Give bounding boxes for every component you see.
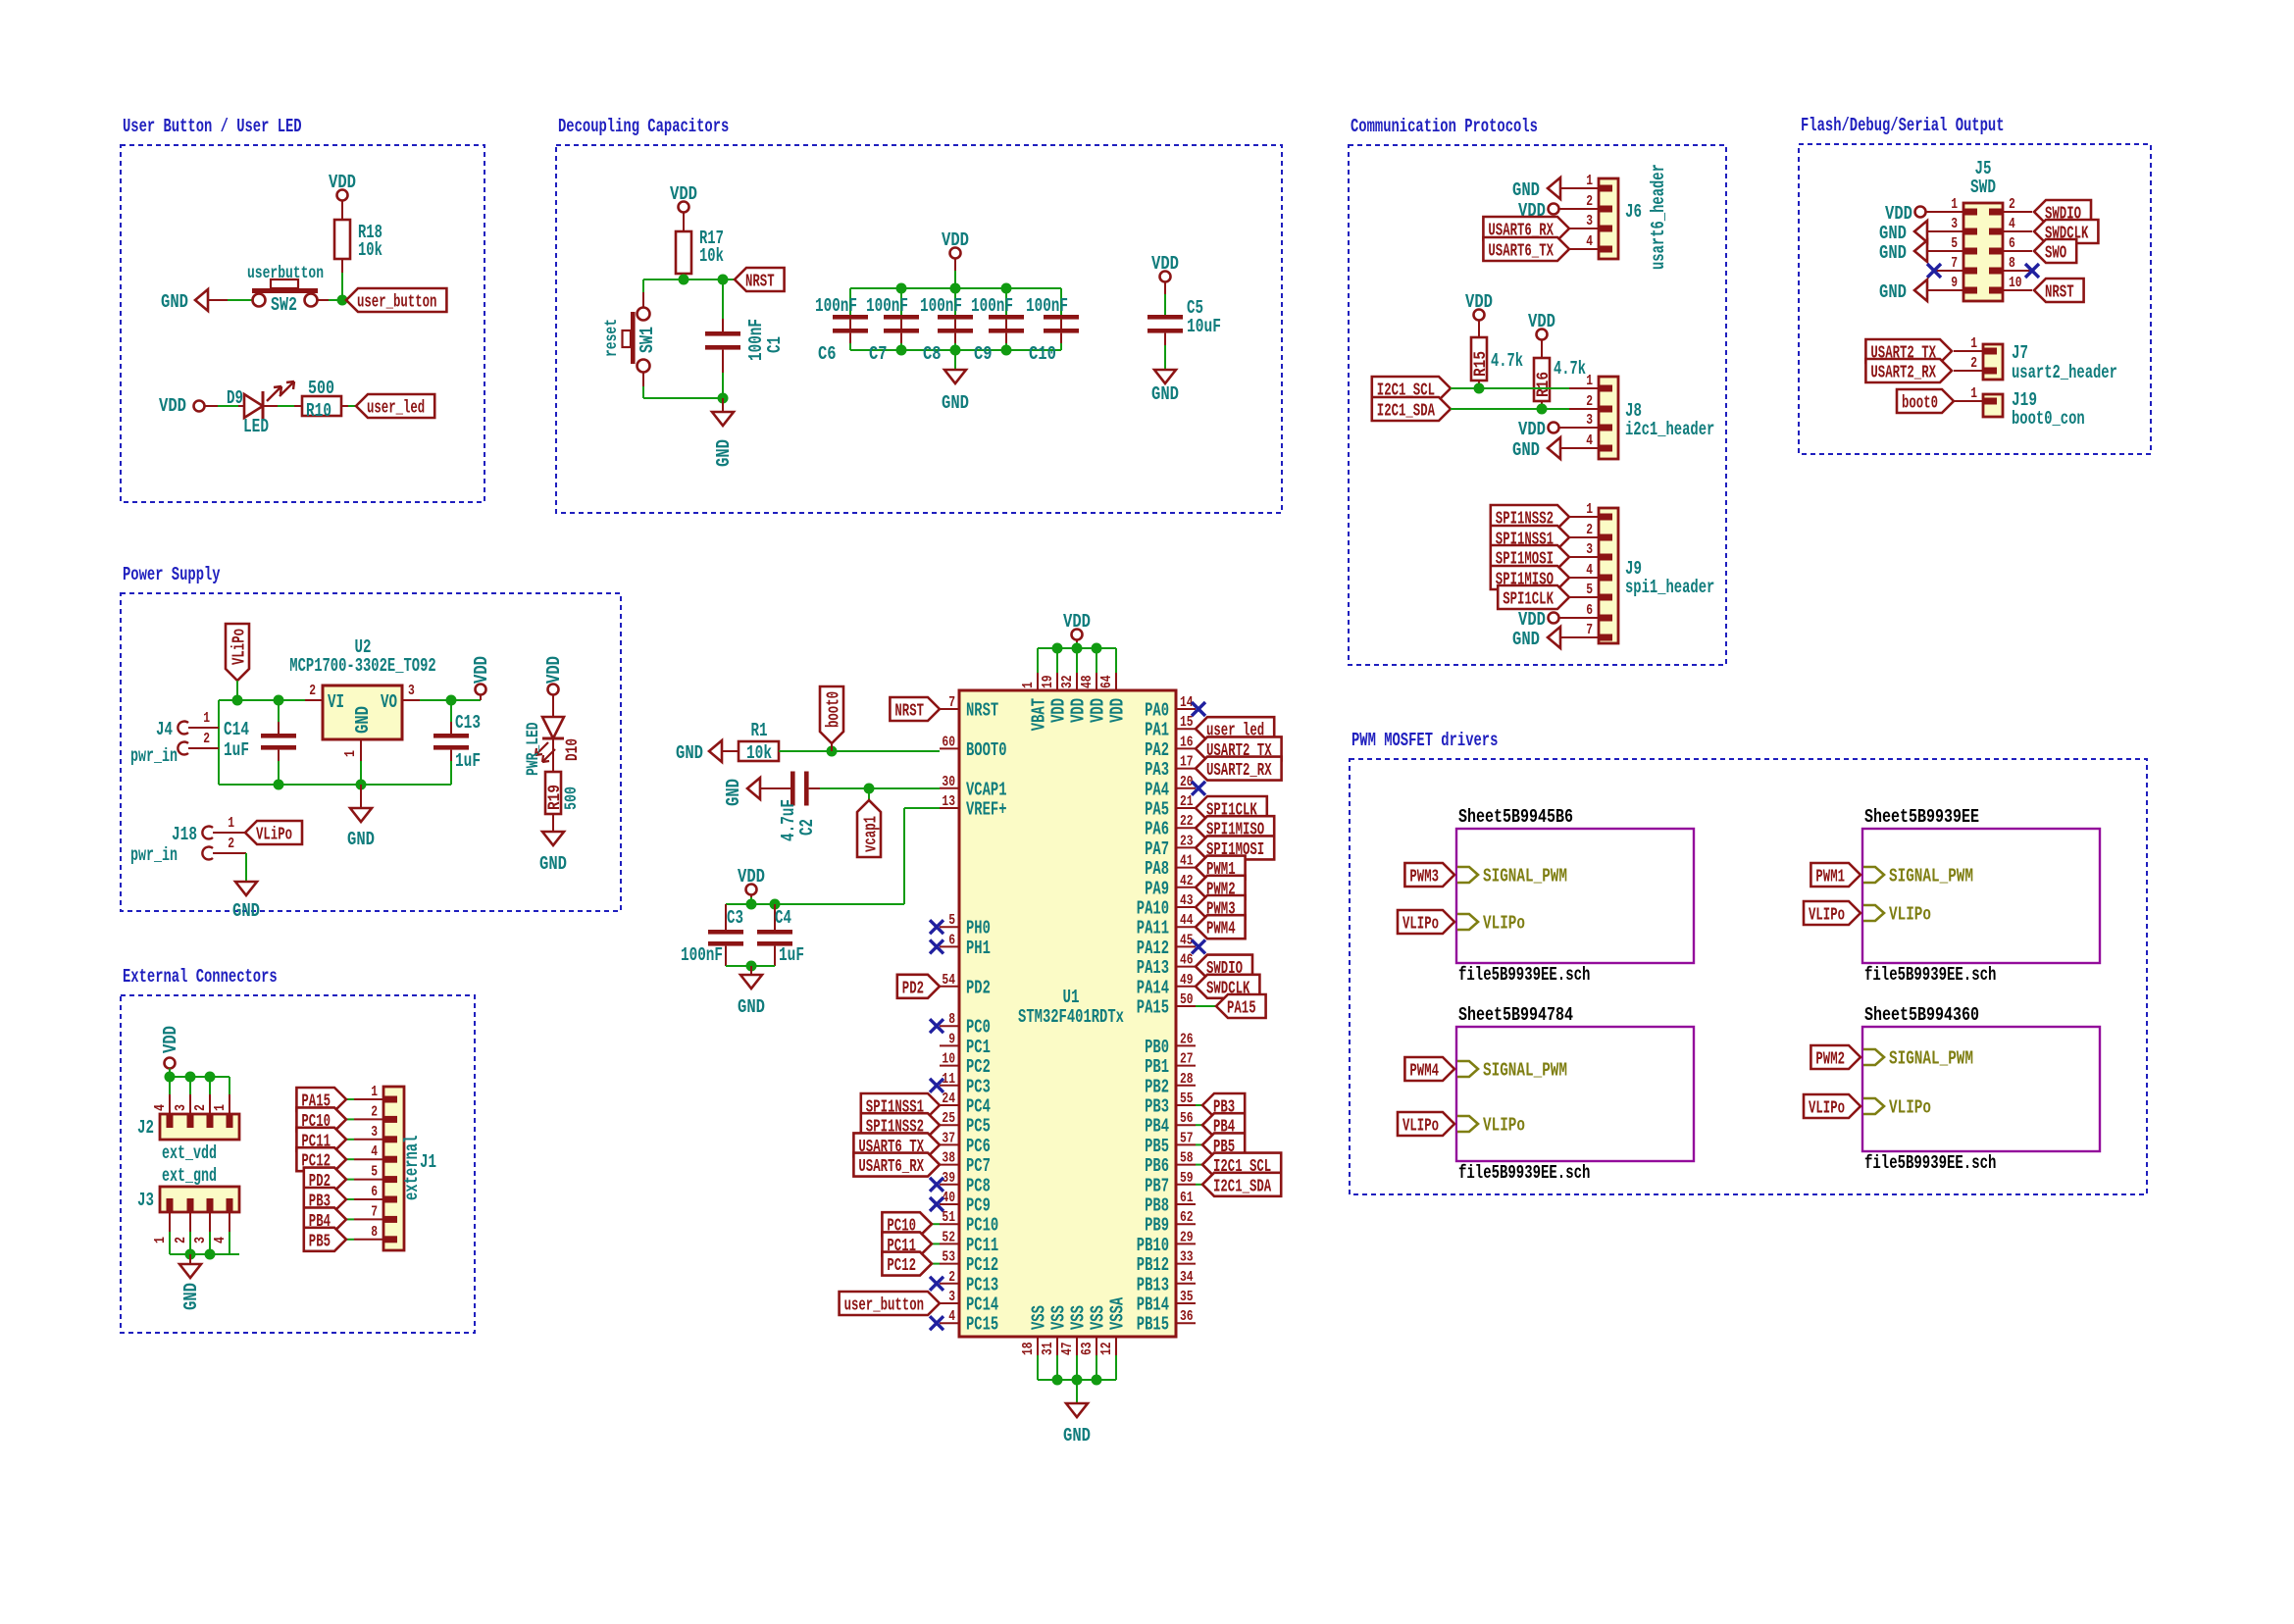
svg-text:user_button: user_button [844, 1296, 924, 1316]
hier label I2C1_SDA (MCU) [1196, 1173, 1281, 1197]
svg-text:VREF+: VREF+ [966, 799, 1007, 821]
hier label USART6_RX (MCU) [853, 1153, 940, 1178]
resistor R16 [1534, 358, 1586, 401]
svg-text:27: 27 [1180, 1051, 1194, 1068]
svg-text:PB9: PB9 [1145, 1215, 1169, 1237]
connector J7 pins [1954, 335, 1997, 372]
svg-text:PC12: PC12 [966, 1254, 998, 1276]
svg-text:VDD: VDD [160, 1026, 181, 1053]
hier label user_led [356, 394, 434, 419]
svg-text:3: 3 [408, 683, 415, 699]
svg-text:C2: C2 [796, 819, 818, 836]
hier label PC10 (MCU) [882, 1212, 940, 1237]
svg-text:PWM MOSFET drivers: PWM MOSFET drivers [1351, 730, 1498, 751]
svg-text:35: 35 [1180, 1289, 1194, 1305]
svg-text:VDD: VDD [738, 866, 765, 888]
svg-text:boot0: boot0 [1902, 394, 1938, 414]
svg-text:2: 2 [2009, 196, 2015, 213]
hier label I2C1_SCL (west) [1372, 377, 1451, 401]
svg-text:PB5: PB5 [1145, 1136, 1169, 1157]
label pwr_in (J4) [130, 745, 178, 767]
svg-text:userbutton: userbutton [247, 264, 324, 283]
svg-text:4: 4 [1586, 432, 1593, 449]
svg-text:GND: GND [1512, 629, 1540, 650]
junctions J2 bus [165, 1072, 216, 1083]
svg-text:PA10: PA10 [1137, 898, 1169, 920]
svg-text:VDD: VDD [159, 395, 186, 417]
svg-text:VSSA: VSSA [1107, 1296, 1129, 1330]
hier label boot0 (J19) [1897, 389, 1954, 414]
svg-text:user_button: user_button [357, 293, 436, 313]
svg-text:GND: GND [180, 1283, 202, 1310]
svg-text:1: 1 [342, 750, 359, 757]
ground GND (C1) [712, 412, 735, 467]
svg-text:1: 1 [203, 710, 210, 727]
svg-text:VDD: VDD [1151, 253, 1179, 275]
svg-text:26: 26 [1180, 1031, 1194, 1047]
svg-text:57: 57 [1180, 1130, 1194, 1146]
wire GND to SW2 [228, 299, 252, 301]
power flag VDD (J5 pin1) [1885, 203, 1934, 225]
svg-text:PH0: PH0 [966, 918, 991, 939]
svg-text:C8: C8 [923, 343, 942, 365]
connector J19 body [1983, 389, 2085, 430]
svg-text:10k: 10k [699, 245, 724, 267]
svg-text:52: 52 [942, 1229, 955, 1245]
power flag VDD (cap bank) [942, 229, 969, 288]
svg-text:25: 25 [942, 1110, 955, 1127]
svg-text:3: 3 [192, 1237, 209, 1243]
svg-text:36: 36 [1180, 1308, 1194, 1325]
svg-text:VLIPo: VLIPo [1889, 904, 1931, 926]
ground GND (J5 pin9) [1879, 279, 1934, 303]
hier label SWDIO [2034, 200, 2091, 225]
MCU U1 bottom power pins [1020, 1296, 1129, 1380]
hier label USART2_RX (MCU) [1196, 757, 1282, 782]
svg-text:100nF: 100nF [971, 295, 1013, 317]
svg-text:10: 10 [2009, 275, 2022, 291]
junction C3/C4 bottom [746, 961, 757, 972]
ground GND (R1) [676, 740, 739, 764]
power flag VDD (J8 pin3) [1518, 419, 1569, 440]
svg-text:file5B9939EE.sch: file5B9939EE.sch [1864, 964, 1996, 986]
svg-text:i2c1_header: i2c1_header [1625, 419, 1714, 440]
svg-text:4: 4 [2009, 216, 2015, 232]
svg-text:Flash/Debug/Serial Output: Flash/Debug/Serial Output [1801, 115, 2005, 136]
svg-text:10uF: 10uF [1187, 316, 1221, 337]
svg-text:PA11: PA11 [1137, 918, 1169, 939]
svg-text:GND: GND [1512, 439, 1540, 461]
wire VLiPo to bus [236, 681, 238, 700]
svg-text:56: 56 [1180, 1110, 1194, 1127]
capacitor C13 [433, 700, 481, 785]
svg-text:1: 1 [1970, 335, 1977, 352]
svg-text:59: 59 [1180, 1170, 1194, 1187]
svg-text:SIGNAL_PWM: SIGNAL_PWM [1889, 1048, 1973, 1070]
svg-text:VSS: VSS [1029, 1305, 1050, 1330]
hier label SWO [2034, 239, 2076, 264]
svg-text:PB4: PB4 [1145, 1116, 1169, 1138]
junction gnd bus U2 [356, 780, 367, 790]
svg-text:USART6_TX: USART6_TX [1488, 242, 1554, 262]
svg-text:62: 62 [1180, 1209, 1194, 1226]
U2 pin3 [402, 683, 420, 700]
power flag VDD (R15) [1465, 291, 1493, 337]
power flag VDD (R16) [1528, 311, 1555, 358]
power flag VDD (C3/C4) [738, 866, 765, 904]
hier label SPI1MISO (J9) [1491, 566, 1569, 590]
svg-text:J6: J6 [1625, 201, 1642, 223]
hier label VLiPo (vertical) [226, 624, 250, 681]
power flag VDD (J9 pin6) [1518, 609, 1569, 631]
no-connect J5 pin7 [1927, 264, 1941, 278]
connector J4 pin2 [178, 731, 219, 755]
capacitor C4 [757, 904, 804, 966]
resistor R10 [302, 378, 341, 422]
svg-text:J2: J2 [137, 1117, 154, 1139]
svg-text:Communication Protocols: Communication Protocols [1351, 116, 1538, 137]
svg-text:PB2: PB2 [1145, 1076, 1169, 1097]
svg-text:PC12: PC12 [887, 1256, 916, 1276]
svg-text:C10: C10 [1029, 343, 1056, 365]
svg-text:boot0_con: boot0_con [2012, 408, 2085, 430]
ground GND (R19) [539, 832, 567, 875]
svg-text:VSS: VSS [1048, 1305, 1070, 1330]
svg-text:2: 2 [1586, 522, 1593, 538]
svg-text:User Button / User LED: User Button / User LED [123, 116, 302, 137]
wire R19 to GND [552, 814, 554, 832]
svg-text:PC6: PC6 [966, 1136, 991, 1157]
junction VLiPo node [232, 695, 243, 706]
svg-text:3: 3 [173, 1104, 189, 1111]
hier label SWDCLK [2034, 220, 2098, 244]
svg-text:R15: R15 [1471, 351, 1491, 377]
connector J2 pins [152, 1077, 229, 1128]
svg-text:USART2_RX: USART2_RX [1206, 761, 1272, 781]
wire I2C1_SCL [1451, 387, 1569, 389]
svg-text:10: 10 [942, 1051, 955, 1068]
wire U2 gnd stem [360, 785, 362, 808]
svg-text:37: 37 [942, 1130, 955, 1146]
svg-text:5: 5 [1586, 582, 1593, 598]
svg-text:C9: C9 [974, 343, 993, 365]
switch SW2 [247, 264, 324, 316]
U2 pin2 [305, 683, 323, 700]
capacitor C14 [224, 700, 296, 785]
svg-text:PB10: PB10 [1137, 1235, 1169, 1256]
svg-text:VDD: VDD [1088, 698, 1109, 723]
connector J7 body [1983, 342, 2117, 383]
svg-text:PA9: PA9 [1145, 878, 1169, 899]
wire D9 to R10 [264, 405, 302, 407]
svg-text:GND: GND [1879, 223, 1907, 244]
svg-text:boot0: boot0 [825, 691, 844, 728]
U2 pin1 (gnd) [342, 739, 361, 785]
svg-text:PA5: PA5 [1145, 799, 1169, 821]
hier label USART6_TX (J6) [1483, 237, 1569, 262]
svg-text:1: 1 [152, 1237, 169, 1243]
svg-text:SW1: SW1 [637, 327, 658, 353]
connector J1 pins [354, 1084, 397, 1241]
svg-text:NRST: NRST [966, 700, 998, 722]
svg-text:3: 3 [1951, 216, 1958, 232]
wire I2C1_SDA [1451, 408, 1569, 410]
svg-text:PC13: PC13 [966, 1274, 998, 1295]
wire power input bus [219, 700, 305, 785]
label J4 [156, 719, 173, 740]
svg-text:SWD: SWD [1970, 177, 1996, 198]
svg-text:J18: J18 [172, 824, 197, 845]
junction user_button node [337, 295, 348, 306]
power flag VDD (R17) [670, 183, 697, 231]
svg-text:PA1: PA1 [1145, 720, 1169, 741]
svg-text:2: 2 [948, 1269, 955, 1286]
svg-text:PH1: PH1 [966, 938, 991, 959]
svg-text:2: 2 [309, 683, 316, 699]
resistor R19 [545, 772, 582, 814]
svg-text:External Connectors: External Connectors [123, 966, 278, 988]
MCU U1 body [959, 690, 1176, 1337]
capacitors C6 C7 C8 C9 C10 [815, 288, 1079, 365]
wire VDD top bus [1038, 647, 1116, 649]
wire to GND (C3/C4) [750, 966, 752, 975]
svg-text:J4: J4 [156, 719, 173, 740]
svg-text:BOOT0: BOOT0 [966, 739, 1007, 761]
svg-text:2: 2 [192, 1104, 209, 1111]
wire R16 bottom [1541, 401, 1543, 409]
wire cap bank to GND [954, 350, 956, 370]
svg-text:PC4: PC4 [966, 1096, 991, 1118]
svg-text:VDD: VDD [471, 656, 492, 684]
svg-text:PWM2: PWM2 [1815, 1050, 1845, 1070]
hier label SPI1NSS2 (MCU) [861, 1113, 940, 1138]
svg-text:44: 44 [1180, 912, 1194, 929]
svg-text:PA0: PA0 [1145, 700, 1169, 722]
svg-text:7: 7 [371, 1203, 378, 1220]
svg-text:100nF: 100nF [815, 295, 857, 317]
svg-text:PB1: PB1 [1145, 1056, 1169, 1078]
svg-text:PA13: PA13 [1137, 957, 1169, 979]
svg-text:SIGNAL_PWM: SIGNAL_PWM [1889, 866, 1973, 888]
wire D10 to R19 [552, 738, 554, 772]
hier label SPI1CLK (MCU) [1196, 796, 1267, 821]
sheet Sheet5B994360 [1804, 1004, 2100, 1174]
hier label SWDIO (MCU) [1196, 955, 1252, 980]
svg-text:23: 23 [1180, 833, 1194, 849]
junctions J3 bus [185, 1249, 216, 1260]
svg-text:1: 1 [1970, 385, 1977, 402]
svg-text:PWM1: PWM1 [1815, 868, 1845, 888]
wire cap bank top bus [850, 287, 1061, 289]
svg-text:PB6: PB6 [1145, 1155, 1169, 1177]
svg-text:PC15: PC15 [966, 1314, 998, 1336]
hier label PC12 (MCU) [882, 1252, 940, 1277]
connector J8 pins [1569, 373, 1612, 449]
power flag VDD (U2 out) [471, 656, 492, 700]
svg-text:J1: J1 [420, 1151, 436, 1173]
hier label I2C1_SDA (west) [1372, 397, 1451, 422]
svg-text:54: 54 [942, 972, 955, 989]
svg-text:PA7: PA7 [1145, 838, 1169, 860]
connector J5 body [1963, 158, 2003, 301]
ground GND (J18) [232, 882, 260, 922]
svg-text:GND: GND [676, 742, 703, 764]
svg-text:VSS: VSS [1068, 1305, 1090, 1330]
hier label PWM3 (MCU) [1196, 895, 1246, 920]
sheet Sheet5B994784 [1398, 1004, 1694, 1184]
svg-text:VLIPo: VLIPo [1483, 1115, 1525, 1137]
svg-text:Sheet5B9945B6: Sheet5B9945B6 [1458, 806, 1573, 828]
svg-text:17: 17 [1180, 754, 1194, 771]
capacitor C3 [681, 904, 743, 966]
MCU U1 top power pins [1020, 648, 1129, 731]
svg-text:PWR_LED: PWR_LED [524, 722, 543, 776]
capacitor C5 [1147, 297, 1221, 370]
section box: User Button / User LED [121, 116, 484, 502]
junctions bottom bus [1052, 1375, 1102, 1386]
svg-text:100nF: 100nF [920, 295, 962, 317]
resistor R17 [676, 228, 724, 274]
svg-text:VDD: VDD [543, 656, 565, 684]
junction gnd bus C14 [274, 780, 284, 790]
junction R15/SCL [1474, 383, 1485, 394]
hier label PWM1 (MCU) [1196, 856, 1246, 881]
hier label PC11 (MCU) [882, 1232, 940, 1256]
connector J2 body [137, 1114, 239, 1164]
wire power gnd bus [219, 784, 451, 786]
svg-text:VLIPo: VLIPo [1483, 913, 1525, 935]
resistor R1 [739, 720, 779, 764]
svg-text:VDD: VDD [1518, 609, 1546, 631]
svg-text:VDD: VDD [670, 183, 697, 205]
svg-text:GND: GND [352, 706, 374, 734]
svg-text:GND: GND [1063, 1425, 1091, 1446]
svg-text:pwr_in: pwr_in [130, 745, 178, 767]
svg-text:55: 55 [1180, 1091, 1194, 1107]
capacitor C2 [778, 772, 940, 842]
svg-text:4: 4 [1586, 233, 1593, 250]
svg-text:file5B9939EE.sch: file5B9939EE.sch [1458, 964, 1590, 986]
power flag VDD (C5) [1151, 253, 1179, 315]
resistor R18 [334, 220, 382, 261]
hier label USART2_RX [1865, 359, 1952, 383]
svg-text:58: 58 [1180, 1150, 1194, 1167]
svg-text:PB14: PB14 [1137, 1294, 1169, 1316]
svg-text:VLIPo: VLIPo [1402, 1117, 1439, 1137]
svg-text:24: 24 [942, 1091, 955, 1107]
svg-text:10k: 10k [358, 239, 382, 261]
ground GND (C5) [1151, 370, 1179, 405]
svg-text:usart2_header: usart2_header [2012, 362, 2117, 383]
ground GND (U2) [347, 808, 375, 850]
svg-text:2: 2 [1586, 393, 1593, 410]
svg-text:PC9: PC9 [966, 1195, 991, 1217]
hier label PA15 (MCU) [1196, 994, 1266, 1019]
power flag VDD (J6 pin2) [1518, 200, 1569, 222]
svg-text:7: 7 [948, 694, 955, 711]
junction C14 top [274, 695, 284, 706]
hier label USART6_TX (MCU) [853, 1133, 940, 1157]
svg-text:C6: C6 [818, 343, 837, 365]
svg-text:PC11: PC11 [966, 1235, 998, 1256]
svg-text:19: 19 [1040, 675, 1056, 688]
svg-text:4: 4 [212, 1237, 229, 1243]
MCU U1 right pins [1137, 694, 1205, 1336]
svg-text:PC5: PC5 [966, 1116, 991, 1138]
svg-text:C1: C1 [764, 336, 786, 353]
svg-text:1: 1 [1020, 682, 1037, 688]
wire C1 to GND [722, 398, 724, 412]
svg-text:C3: C3 [727, 907, 743, 929]
svg-text:2: 2 [1970, 355, 1977, 372]
svg-text:12: 12 [1098, 1342, 1115, 1355]
sheet Sheet5B9939EE [1804, 806, 2100, 986]
power flag VDD (J2) [160, 1026, 181, 1077]
section box: External Connectors [121, 966, 475, 1333]
svg-text:R10: R10 [306, 400, 331, 422]
connector J9 body [1599, 508, 1714, 643]
svg-text:VDD: VDD [1063, 611, 1091, 633]
svg-text:8: 8 [948, 1011, 955, 1028]
svg-text:PB5: PB5 [309, 1232, 331, 1251]
hier label PD2 (MCU) [897, 975, 940, 999]
svg-text:VDD: VDD [329, 172, 356, 193]
ground GND (J5 pin5) [1879, 240, 1934, 264]
hier label user_button [346, 288, 446, 313]
svg-text:100nF: 100nF [681, 944, 723, 966]
svg-text:1uF: 1uF [455, 750, 481, 772]
svg-text:USART2_RX: USART2_RX [1870, 364, 1936, 383]
svg-text:Decoupling Capacitors: Decoupling Capacitors [558, 116, 729, 137]
hier label NRST (MCU) [890, 697, 940, 722]
svg-text:GND: GND [1879, 281, 1907, 303]
junction R16/SDA [1537, 404, 1548, 415]
svg-text:43: 43 [1180, 892, 1194, 909]
svg-text:PA14: PA14 [1137, 977, 1169, 998]
svg-text:STM32F401RDTx: STM32F401RDTx [1018, 1006, 1124, 1028]
capacitor C1 [705, 279, 786, 398]
svg-text:GND: GND [1512, 179, 1540, 201]
svg-text:VCAP1: VCAP1 [966, 779, 1007, 800]
connector J1 body [383, 1087, 436, 1250]
connector J6 body [1599, 164, 1669, 270]
svg-text:PWM4: PWM4 [1409, 1062, 1439, 1082]
hier label SPI1NSS2 (J9) [1491, 505, 1569, 530]
svg-text:50: 50 [1180, 991, 1194, 1008]
svg-text:NRST: NRST [745, 273, 775, 292]
svg-text:1: 1 [1586, 373, 1593, 389]
svg-text:61: 61 [1180, 1190, 1194, 1206]
svg-text:Power Supply: Power Supply [123, 564, 221, 585]
hier label SPI1CLK (J9) [1498, 585, 1569, 610]
hier label I2C1_SCL (MCU) [1196, 1153, 1281, 1178]
wire VREF+ run [775, 808, 940, 904]
svg-text:51: 51 [942, 1209, 955, 1226]
svg-text:5: 5 [371, 1164, 378, 1181]
svg-text:34: 34 [1180, 1269, 1194, 1286]
connector J4 pin1 [178, 710, 219, 735]
svg-text:53: 53 [942, 1249, 955, 1266]
hier label SPI1NSS1 (MCU) [861, 1093, 940, 1118]
junctions top bus [1052, 643, 1102, 654]
hier label NRST (J5) [2034, 279, 2084, 303]
svg-text:usart6_header: usart6_header [1648, 164, 1669, 270]
svg-text:PA3: PA3 [1145, 759, 1169, 781]
svg-text:1: 1 [212, 1104, 229, 1111]
hier label SPI1NSS1 (J9) [1491, 526, 1569, 550]
hier label NRST (decoupling) [735, 268, 785, 292]
svg-text:41: 41 [1180, 853, 1194, 870]
